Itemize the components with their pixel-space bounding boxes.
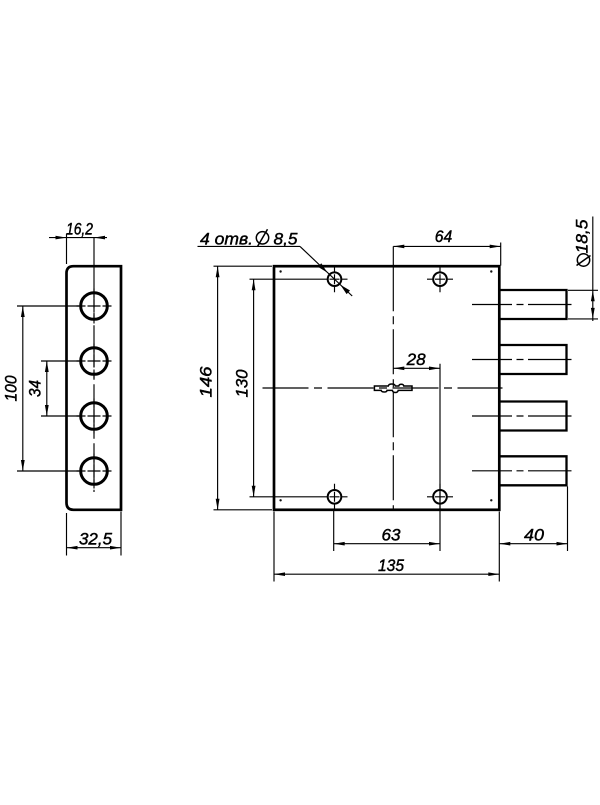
dimension line 28 — [393, 367, 440, 369]
arrow 64 right — [490, 245, 501, 249]
screw hole bottom-left crosshair — [322, 484, 348, 510]
svg-text:34: 34 — [26, 380, 45, 397]
bolt 1 — [499, 290, 566, 319]
dimension line 130 — [253, 279, 255, 497]
arrow 34 bottom — [45, 405, 49, 416]
svg-text:100: 100 — [2, 375, 21, 401]
screw hole bottom-left — [328, 490, 342, 504]
extension line 63 left (hole column) — [333, 510, 335, 551]
dimension line 100 — [22, 306, 24, 471]
arrow 40 left — [499, 542, 510, 546]
extension lines 100 — [17, 306, 79, 471]
hole 3 crosshair — [77, 399, 112, 434]
svg-text:64: 64 — [435, 227, 453, 246]
extension line 40 right (bolt end) — [567, 487, 569, 552]
hole 3 — [81, 403, 108, 430]
svg-text:146: 146 — [197, 366, 216, 398]
hole 2 — [81, 348, 108, 375]
bolt 2 — [499, 345, 566, 374]
extension lines 130 — [250, 279, 322, 497]
screw hole bottom-right — [433, 490, 447, 504]
corner dot top-right — [490, 270, 492, 272]
plate outline — [67, 266, 122, 510]
arrow 32,5 left — [67, 546, 78, 550]
screw hole top-right — [433, 272, 447, 286]
leader arrow below hole (lower) — [340, 285, 350, 294]
leader arrow onto hole (upper) — [318, 263, 328, 272]
svg-text:40: 40 — [524, 525, 545, 544]
extension lines 135 — [274, 512, 499, 582]
dimension line 16,2 — [49, 237, 107, 239]
corner dot bottom-right — [490, 499, 492, 501]
dimension line 135 — [274, 573, 499, 575]
svg-text:18,5: 18,5 — [573, 219, 592, 254]
dimension line 64 — [393, 245, 500, 247]
arrow 146 bottom — [216, 499, 220, 510]
extension line 16,2 left — [66, 234, 68, 264]
extension lines 32,5 — [67, 512, 122, 556]
diameter symbol 18,5 — [577, 254, 589, 266]
dimension line 146 — [217, 266, 219, 510]
keyhole — [374, 384, 412, 393]
hole 4 — [81, 458, 108, 485]
arrow 18,5 down — [591, 308, 595, 319]
arrow 18,5 up — [591, 290, 595, 301]
corner dot top-left — [279, 270, 281, 272]
bolt 4 — [499, 456, 566, 485]
arrow 34 top — [45, 361, 49, 372]
dimension line 40 — [499, 543, 567, 545]
svg-text:63: 63 — [382, 525, 402, 544]
diameter symbol 8,5 — [256, 232, 268, 244]
bolt 3 — [499, 402, 566, 431]
leader shelf 4 otv — [198, 245, 301, 247]
dimension line 34 — [46, 361, 48, 416]
extension line 28 right / bottom-right hole column — [439, 364, 441, 551]
hole 4 crosshair — [77, 454, 112, 489]
centerline vertical through plate holes — [93, 238, 95, 492]
svg-text:4 отв.: 4 отв. — [200, 230, 253, 249]
arrow 40 right — [557, 542, 568, 546]
svg-text:28: 28 — [406, 350, 427, 369]
extension lines 146 — [214, 266, 273, 510]
screw hole top-left crosshair — [322, 266, 348, 292]
arrow 130 top — [252, 279, 256, 290]
svg-text:8,5: 8,5 — [274, 230, 299, 249]
extension line 64 right (body edge up) — [500, 243, 502, 266]
vertical centerline of body — [392, 246, 394, 509]
screw hole top-left — [328, 272, 342, 286]
svg-text:16,2: 16,2 — [66, 219, 93, 238]
arrow 135 left — [274, 572, 285, 576]
arrow 28 right — [429, 367, 440, 371]
arrow 63 right — [429, 542, 440, 546]
arrow 130 bottom — [252, 486, 256, 497]
leader diagonal — [300, 246, 352, 296]
arrow 100 top — [21, 306, 25, 317]
bolt 4 centerline — [472, 470, 572, 472]
hole 2 crosshair — [77, 344, 112, 379]
hole 1 — [81, 293, 108, 320]
hole 1 crosshair — [77, 289, 112, 324]
svg-text:130: 130 — [233, 369, 252, 398]
extension lines dia 18,5 — [568, 290, 598, 319]
bolt 2 centerline — [472, 359, 572, 361]
arrow 16,2 right — [94, 236, 105, 240]
arrow 135 right — [488, 572, 499, 576]
arrow 64 left — [393, 245, 404, 249]
arrow 16,2 left — [56, 236, 67, 240]
extension lines 34 — [41, 361, 79, 416]
arrow 100 bottom — [21, 460, 25, 471]
body outline — [274, 266, 499, 510]
svg-text:135: 135 — [378, 556, 404, 575]
horizontal centerline of body — [263, 387, 503, 389]
corner dot bottom-left — [279, 499, 281, 501]
dimension line 63 — [334, 543, 440, 545]
dimension line dia 18,5 — [592, 217, 594, 322]
screw hole bottom-right crosshair — [427, 484, 453, 510]
svg-text:32,5: 32,5 — [79, 529, 113, 548]
arrow 146 top — [216, 266, 220, 277]
arrow 32,5 right — [110, 546, 121, 550]
arrow 63 left — [334, 542, 345, 546]
dimension line 32,5 — [67, 547, 122, 549]
arrow 28 left — [393, 367, 404, 371]
bolt 3 centerline — [472, 415, 572, 417]
screw hole top-right crosshair — [427, 266, 453, 292]
bolt 1 centerline — [472, 304, 572, 306]
